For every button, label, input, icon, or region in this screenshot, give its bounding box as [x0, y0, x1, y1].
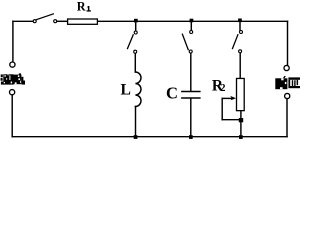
svg-text:C: C	[166, 84, 178, 103]
svg-text:L: L	[121, 81, 131, 98]
svg-text:R: R	[77, 0, 86, 14]
svg-text:2: 2	[220, 83, 225, 94]
